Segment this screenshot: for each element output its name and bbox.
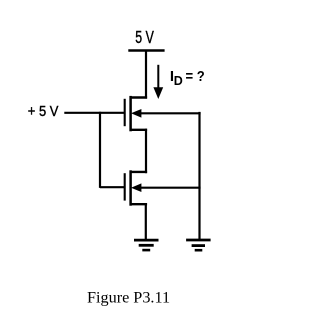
svg-text:= ?: = ? <box>186 68 205 85</box>
svg-text:Figure P3.11: Figure P3.11 <box>87 289 170 307</box>
svg-text:+ 5 V: + 5 V <box>28 103 59 120</box>
svg-text:5 V: 5 V <box>135 27 154 47</box>
svg-text:D: D <box>174 74 183 88</box>
